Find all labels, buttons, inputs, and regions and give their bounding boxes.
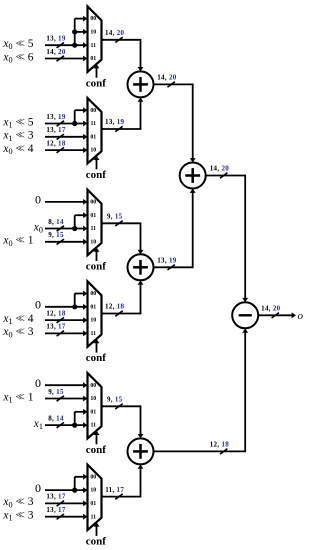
svg-text:11, 17: 11, 17 xyxy=(105,486,124,494)
svg-text:11: 11 xyxy=(91,423,97,429)
svg-text:x1 << 4: x1 << 4 xyxy=(2,313,33,326)
svg-text:01: 01 xyxy=(90,56,96,62)
svg-text:11: 11 xyxy=(91,331,97,337)
svg-text:10: 10 xyxy=(90,318,96,324)
svg-text:conf: conf xyxy=(86,536,107,548)
svg-text:14, 20: 14, 20 xyxy=(105,29,125,37)
svg-text:conf: conf xyxy=(86,169,107,181)
svg-text:0: 0 xyxy=(35,376,41,390)
svg-text:13, 19: 13, 19 xyxy=(46,113,66,121)
svg-text:9, 15: 9, 15 xyxy=(107,396,123,404)
svg-text:conf: conf xyxy=(86,77,107,89)
svg-text:x1 << 3: x1 << 3 xyxy=(2,130,33,143)
svg-text:13, 19: 13, 19 xyxy=(157,257,177,265)
svg-text:9, 15: 9, 15 xyxy=(48,231,64,239)
svg-text:conf: conf xyxy=(86,444,107,456)
svg-text:12, 18: 12, 18 xyxy=(46,309,66,317)
svg-text:00: 00 xyxy=(90,291,96,297)
svg-text:x1 << 3: x1 << 3 xyxy=(2,510,33,523)
svg-text:0: 0 xyxy=(35,193,41,207)
svg-text:14, 20: 14, 20 xyxy=(210,165,230,173)
svg-text:11: 11 xyxy=(91,121,97,127)
svg-text:11: 11 xyxy=(91,514,97,520)
svg-text:o: o xyxy=(298,310,304,322)
svg-text:13, 17: 13, 17 xyxy=(46,506,66,514)
svg-text:00: 00 xyxy=(90,474,96,480)
svg-text:13, 17: 13, 17 xyxy=(46,323,66,331)
svg-text:14, 20: 14, 20 xyxy=(46,48,66,56)
svg-text:01: 01 xyxy=(90,409,96,415)
svg-text:13, 19: 13, 19 xyxy=(46,35,66,43)
svg-text:00: 00 xyxy=(90,200,96,206)
svg-text:0: 0 xyxy=(35,298,41,312)
svg-text:13, 17: 13, 17 xyxy=(46,493,66,501)
svg-text:x0 << 6: x0 << 6 xyxy=(2,51,33,64)
svg-text:00: 00 xyxy=(90,383,96,389)
svg-text:12, 18: 12, 18 xyxy=(46,139,66,147)
svg-text:12, 18: 12, 18 xyxy=(105,303,125,311)
svg-text:01: 01 xyxy=(90,213,96,219)
svg-text:8, 14: 8, 14 xyxy=(48,218,64,226)
svg-text:10: 10 xyxy=(90,30,96,36)
svg-text:11: 11 xyxy=(91,226,97,232)
svg-text:9, 15: 9, 15 xyxy=(48,388,64,396)
svg-text:10: 10 xyxy=(90,396,96,402)
svg-text:01: 01 xyxy=(90,501,96,507)
svg-text:x0 << 4: x0 << 4 xyxy=(2,143,33,156)
svg-text:x0 << 3: x0 << 3 xyxy=(2,496,33,509)
svg-text:x0 << 1: x0 << 1 xyxy=(2,235,33,248)
svg-text:x1 << 1: x1 << 1 xyxy=(2,391,33,404)
svg-text:10: 10 xyxy=(90,488,96,494)
svg-text:13, 17: 13, 17 xyxy=(46,126,66,134)
svg-text:0: 0 xyxy=(35,481,41,495)
svg-text:11: 11 xyxy=(91,43,97,49)
svg-text:x0 << 5: x0 << 5 xyxy=(2,38,33,51)
svg-text:10: 10 xyxy=(90,148,96,154)
svg-text:14, 20: 14, 20 xyxy=(261,305,281,313)
svg-text:14, 20: 14, 20 xyxy=(157,74,177,82)
svg-text:01: 01 xyxy=(90,134,96,140)
svg-text:8, 14: 8, 14 xyxy=(48,414,64,422)
svg-text:00: 00 xyxy=(90,16,96,22)
svg-text:13, 19: 13, 19 xyxy=(105,118,125,126)
svg-text:x1 << 5: x1 << 5 xyxy=(2,116,33,129)
svg-text:01: 01 xyxy=(90,304,96,310)
svg-text:10: 10 xyxy=(90,239,96,245)
svg-text:conf: conf xyxy=(86,261,107,273)
svg-text:conf: conf xyxy=(86,352,107,364)
svg-text:9, 15: 9, 15 xyxy=(107,213,123,221)
svg-text:12, 18: 12, 18 xyxy=(210,441,230,449)
svg-text:00: 00 xyxy=(90,108,96,114)
svg-text:x0 << 3: x0 << 3 xyxy=(2,326,33,339)
